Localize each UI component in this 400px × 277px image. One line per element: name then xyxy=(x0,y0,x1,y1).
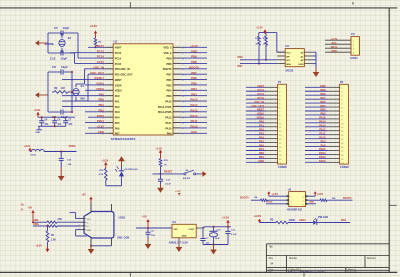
wire P1 row xyxy=(246,130,266,132)
capacitor C9 10pF xyxy=(52,111,61,113)
wire P2 row xyxy=(305,122,328,124)
svg-text:PD1-OSC_OUT: PD1-OSC_OUT xyxy=(115,74,133,77)
svg-text:PB3: PB3 xyxy=(167,95,172,98)
svg-text:+3.3V: +3.3V xyxy=(96,125,104,129)
pin P1 8 xyxy=(266,114,278,116)
pin P2 1 xyxy=(328,86,340,88)
pin U2 right 7 xyxy=(304,55,312,57)
ground port G1 (32k crystal) xyxy=(37,42,48,44)
wire P2 row xyxy=(305,161,328,163)
svg-text:GND: GND xyxy=(98,130,104,134)
pin P1 13 xyxy=(266,134,278,136)
pin 45 U1 right xyxy=(173,62,181,64)
pin 43 U1 right xyxy=(173,73,181,75)
svg-text:D-: D- xyxy=(87,223,89,225)
wire P1 row xyxy=(246,90,266,92)
pin P2 15 xyxy=(328,142,340,144)
svg-text:+3.3V: +3.3V xyxy=(175,191,181,193)
svg-text:VSSA: VSSA xyxy=(115,84,122,87)
svg-text:GND: GND xyxy=(331,50,337,53)
pin 13 U1 left xyxy=(106,111,114,113)
svg-text:USB1: USB1 xyxy=(119,217,126,220)
USB shield pin top left xyxy=(90,202,92,212)
svg-text:+3.3V: +3.3V xyxy=(222,215,230,219)
pin P2 8 xyxy=(328,114,340,116)
wire GND row xyxy=(76,229,81,231)
crystal X2 32.768kHz xyxy=(59,40,65,47)
wire reg output rail xyxy=(204,226,231,228)
svg-text:PB1: PB1 xyxy=(98,103,104,107)
svg-text:PA3: PA3 xyxy=(115,111,120,114)
wire L1 to VDDA xyxy=(44,151,76,153)
pin jumper left 3 xyxy=(286,199,288,201)
pin 10 U1 left xyxy=(106,95,114,97)
svg-text:10K: 10K xyxy=(332,198,336,200)
svg-text:PA5: PA5 xyxy=(115,122,120,125)
svg-text:PA0: PA0 xyxy=(259,120,264,124)
svg-text:Revision: Revision xyxy=(367,258,377,260)
wire +5V input rail xyxy=(136,227,172,229)
capacitor C7 223 xyxy=(202,227,204,239)
svg-text:LED1: LED1 xyxy=(299,218,306,222)
ground (reset) xyxy=(160,185,162,191)
svg-text:1M: 1M xyxy=(61,86,65,90)
pin P2 17 xyxy=(328,150,340,152)
USB shield pin bottom right xyxy=(111,238,113,246)
wire R7 to USB xyxy=(57,221,81,223)
svg-text:PA14-JTCK: PA14-JTCK xyxy=(158,106,172,109)
svg-text:PC15: PC15 xyxy=(97,60,105,64)
wire D+ row xyxy=(33,225,47,227)
svg-text:+3.3V: +3.3V xyxy=(156,147,163,150)
pin 3 U1 left xyxy=(106,57,114,59)
svg-text:VCC: VCC xyxy=(286,53,291,55)
svg-text:+3.3V: +3.3V xyxy=(254,214,262,218)
pin U3 out xyxy=(196,227,204,229)
USB shield pin bottom left xyxy=(90,238,92,246)
wire P1 row xyxy=(246,153,266,155)
svg-text:PB4: PB4 xyxy=(320,108,326,112)
wire U1 left row xyxy=(85,132,106,134)
wire U1 left row xyxy=(78,57,106,59)
resistor R3 100R xyxy=(276,221,288,224)
svg-text:USB-: USB- xyxy=(33,219,39,222)
connector P1 CON20 xyxy=(278,84,287,164)
pin 36 U1 right xyxy=(173,111,181,113)
svg-text:PC13: PC13 xyxy=(97,49,105,53)
resistor R5 10K xyxy=(320,199,327,201)
wire P1 row xyxy=(246,114,266,116)
svg-text:PA13: PA13 xyxy=(319,124,326,128)
svg-text:PA10: PA10 xyxy=(165,127,172,130)
svg-text:CON4: CON4 xyxy=(350,56,358,60)
wire P2 row xyxy=(305,146,328,148)
pin P3 row xyxy=(325,39,351,41)
EEPROM U2 24C02 xyxy=(285,49,304,67)
svg-text:PA11: PA11 xyxy=(165,122,172,125)
pin jumper right 2 xyxy=(305,195,307,197)
pin 38 U1 right xyxy=(173,100,181,102)
svg-text:PB5: PB5 xyxy=(167,84,172,87)
pin 46 U1 right xyxy=(173,57,181,59)
svg-text:GND: GND xyxy=(182,236,187,238)
svg-text:PC15: PC15 xyxy=(115,63,122,66)
wire P2 row xyxy=(305,134,328,136)
svg-text:PC15: PC15 xyxy=(258,96,265,100)
pin P1 12 xyxy=(266,130,278,132)
svg-text:PB7: PB7 xyxy=(167,74,172,77)
wire U1 left row xyxy=(62,105,106,107)
capacitor C13 10pF xyxy=(52,52,61,54)
wire P1 row xyxy=(246,138,266,140)
svg-text:Drawn By:: Drawn By: xyxy=(348,271,358,273)
wire U1 left row xyxy=(88,46,106,48)
svg-text:PC14: PC14 xyxy=(258,92,265,96)
wire U1 left row xyxy=(88,73,106,75)
svg-text:USB_CON: USB_CON xyxy=(117,237,129,240)
svg-text:10uF: 10uF xyxy=(215,238,221,240)
regulator U3 AMS1117-3.3V xyxy=(172,224,196,238)
pin P2 16 xyxy=(328,146,340,148)
svg-text:AMS1117-3.3V: AMS1117-3.3V xyxy=(169,240,189,244)
wire R2 to VBAT xyxy=(95,46,97,47)
svg-text:1K: 1K xyxy=(164,164,167,166)
wire U1 right row xyxy=(181,57,207,59)
svg-text:PA15: PA15 xyxy=(319,116,326,120)
resistor R9 1M xyxy=(54,91,68,94)
svg-text:STM32F103C8T6: STM32F103C8T6 xyxy=(111,137,136,141)
capacitor C10 10uF electrolytic xyxy=(213,227,215,231)
svg-text:PA2: PA2 xyxy=(259,127,264,131)
wire U1 left row xyxy=(85,111,106,113)
svg-text:PB15: PB15 xyxy=(319,147,326,151)
svg-text:VBAT: VBAT xyxy=(96,44,104,48)
svg-text:GND: GND xyxy=(320,84,326,88)
wire shield tie xyxy=(91,245,112,247)
svg-text:VBAT: VBAT xyxy=(257,84,264,88)
wire P2 row xyxy=(305,157,328,159)
svg-text:VOUT: VOUT xyxy=(188,229,195,231)
pin U2 left 3 xyxy=(277,59,285,61)
wire U1 right row xyxy=(181,46,207,48)
svg-text:NRST: NRST xyxy=(115,79,122,82)
wire P1 row xyxy=(246,122,266,124)
svg-text:GND: GND xyxy=(298,64,303,66)
svg-text:GND: GND xyxy=(35,132,40,134)
svg-text:PB10: PB10 xyxy=(97,114,105,118)
svg-text:PA11: PA11 xyxy=(319,131,326,135)
svg-text:PB3: PB3 xyxy=(191,92,197,96)
svg-text:GND: GND xyxy=(268,202,273,204)
svg-text:PA6: PA6 xyxy=(259,143,264,147)
ground (reg out) xyxy=(213,245,215,252)
svg-text:PA3: PA3 xyxy=(259,131,264,135)
svg-text:File:: File: xyxy=(269,271,273,273)
svg-text:PB4: PB4 xyxy=(167,90,172,93)
svg-text:X1: X1 xyxy=(81,84,85,88)
pin P1 5 xyxy=(266,102,278,104)
svg-text:0.1uF: 0.1uF xyxy=(165,183,171,185)
capacitor C5 10pF xyxy=(52,32,61,34)
svg-text:PA10: PA10 xyxy=(331,46,338,49)
svg-text:PB9: PB9 xyxy=(320,88,326,92)
pin P1 2 xyxy=(266,90,278,92)
svg-text:SCL: SCL xyxy=(286,60,291,62)
pin USB 2 xyxy=(81,221,86,223)
svg-text:BOOT0: BOOT0 xyxy=(189,65,199,69)
pin P2 3 xyxy=(328,94,340,96)
svg-text:+3.3V: +3.3V xyxy=(272,193,279,196)
svg-text:PB2: PB2 xyxy=(98,108,104,112)
svg-text:D2 PWR-LED: D2 PWR-LED xyxy=(124,169,138,171)
pin P2 13 xyxy=(328,134,340,136)
pin 8 U1 left xyxy=(106,84,114,86)
svg-text:VBAT: VBAT xyxy=(115,47,122,50)
wire I2C top rail xyxy=(259,32,277,34)
pin 7 U1 left xyxy=(106,79,114,81)
svg-text:VSSA: VSSA xyxy=(257,112,264,116)
svg-text:PA4: PA4 xyxy=(115,117,120,120)
svg-text:PB6: PB6 xyxy=(167,79,172,82)
pin 15 U1 left xyxy=(106,122,114,124)
wire U1 right row xyxy=(181,89,207,91)
pin P2 2 xyxy=(328,90,340,92)
wire P1 row xyxy=(246,94,266,96)
pin 2 U1 left xyxy=(106,52,114,54)
svg-text:BOOT1: BOOT1 xyxy=(343,197,352,200)
wire bank bottom rail xyxy=(38,125,66,127)
pin 14 U1 left xyxy=(106,116,114,118)
resistor R7 22R xyxy=(47,221,57,223)
svg-text:PB6: PB6 xyxy=(320,100,326,104)
svg-text:PC13: PC13 xyxy=(258,88,265,92)
pin U2 left 2 xyxy=(277,55,285,57)
pin jumper left 5 xyxy=(286,203,288,205)
svg-text:PB6: PB6 xyxy=(191,76,197,80)
svg-text:OSC_IN: OSC_IN xyxy=(93,65,104,69)
capacitor C7 104 xyxy=(65,117,67,121)
svg-text:PB7: PB7 xyxy=(320,96,326,100)
wire boot row1 right xyxy=(308,195,316,197)
capacitor C8 10pF xyxy=(52,71,61,73)
svg-text:GND: GND xyxy=(87,230,92,232)
svg-text:PB7: PB7 xyxy=(238,64,244,68)
ground GND (bank) xyxy=(38,126,40,129)
svg-text:+5V: +5V xyxy=(28,207,33,210)
wire U1 right row xyxy=(181,111,207,113)
svg-text:PD0-OSC_IN: PD0-OSC_IN xyxy=(115,68,130,71)
svg-text:PB8: PB8 xyxy=(320,92,326,96)
svg-text:HEADER 3X2: HEADER 3X2 xyxy=(287,208,303,211)
wire U1 right row xyxy=(181,100,207,102)
wire P1 row xyxy=(246,98,266,100)
svg-text:VDDA: VDDA xyxy=(69,145,76,148)
wire pullups to SCL/SDA xyxy=(258,46,260,64)
ground (I2C) xyxy=(315,68,317,74)
svg-text:+3.3V: +3.3V xyxy=(190,44,198,48)
svg-text:USB+: USB+ xyxy=(33,223,40,226)
switch S2 xyxy=(184,173,186,175)
svg-text:PA10: PA10 xyxy=(319,135,326,139)
wire P1 row xyxy=(246,126,266,128)
svg-text:10pF: 10pF xyxy=(61,57,68,61)
pin 32 U1 right xyxy=(173,132,181,134)
pin P2 18 xyxy=(328,153,340,155)
capacitor C6 104 xyxy=(54,117,56,121)
svg-text:4: 4 xyxy=(78,228,79,230)
svg-text:PB12: PB12 xyxy=(319,159,326,163)
ground (VDDA filter) xyxy=(60,167,62,178)
capacitor C11 0.1uF xyxy=(227,227,229,231)
pin P2 5 xyxy=(328,102,340,104)
wire U1 left row xyxy=(85,68,106,70)
wire P1 row xyxy=(246,106,266,108)
capacitor C14 104 xyxy=(60,151,62,153)
ground up (PWR LED) xyxy=(121,159,123,166)
svg-text:OSC_OUT: OSC_OUT xyxy=(251,104,264,108)
resistor R2 0R xyxy=(94,38,97,46)
pin P1 17 xyxy=(266,150,278,152)
pin P1 15 xyxy=(266,142,278,144)
wire U1 right row xyxy=(181,122,207,124)
svg-text:WP: WP xyxy=(286,56,290,58)
pin 42 U1 right xyxy=(173,79,181,81)
wire bank top rail xyxy=(38,116,75,118)
svg-text:PA7: PA7 xyxy=(115,133,120,136)
svg-text:D+: D+ xyxy=(21,203,25,206)
wire P1 row xyxy=(246,161,266,163)
resistor R8 22R xyxy=(47,225,57,227)
pin P1 20 xyxy=(266,161,278,163)
svg-text:PB5: PB5 xyxy=(191,82,197,86)
svg-text:R3: R3 xyxy=(270,218,274,222)
pin 35 U1 right xyxy=(173,116,181,118)
wire boot row3 left xyxy=(266,203,286,205)
svg-text:PC14: PC14 xyxy=(115,57,122,60)
pin P1 1 xyxy=(266,86,278,88)
wire U1 right row xyxy=(181,116,207,118)
pin P1 14 xyxy=(266,138,278,140)
pin P1 18 xyxy=(266,153,278,155)
svg-text:P2: P2 xyxy=(340,80,344,84)
pin 44 U1 right xyxy=(173,68,181,70)
pin P1 10 xyxy=(266,122,278,124)
wire P2 row xyxy=(305,150,328,152)
wire P2 row xyxy=(305,110,328,112)
pin USB 4 xyxy=(81,229,86,231)
wire P2 row xyxy=(305,126,328,128)
pin U3 gnd xyxy=(178,238,180,242)
wire cap bottom rail xyxy=(203,244,228,246)
svg-text:24C02: 24C02 xyxy=(285,68,293,72)
wire +3.3V to VCC pin xyxy=(276,33,278,53)
wire R3 to LED xyxy=(288,222,312,224)
pin P1 6 xyxy=(266,106,278,108)
svg-text:32.768k: 32.768k xyxy=(45,42,55,46)
svg-text:VIN: VIN xyxy=(174,229,178,231)
pin jumper left 1 xyxy=(286,195,288,197)
wire S2 to port xyxy=(196,173,201,175)
wire D- row xyxy=(33,221,47,223)
wire R5 to BOOT1 xyxy=(327,199,353,201)
wire 8M crystal left rail xyxy=(47,72,49,112)
wire boot row3 right xyxy=(308,203,316,205)
MCU U1 STM32F103C8T6 xyxy=(113,44,173,135)
wire P2 row xyxy=(305,142,328,144)
pin 11 U1 left xyxy=(106,100,114,102)
pin U2 left 1 xyxy=(277,51,285,53)
svg-text:VDDA: VDDA xyxy=(257,116,264,120)
pin P1 3 xyxy=(266,94,278,96)
svg-text:VSSA: VSSA xyxy=(96,82,104,86)
svg-text:PA4: PA4 xyxy=(259,135,264,139)
wire X2 to PC14/PC15 xyxy=(61,33,63,38)
svg-text:+3.3V: +3.3V xyxy=(331,38,338,41)
wire P2 row xyxy=(305,102,328,104)
svg-text:PA0: PA0 xyxy=(99,92,105,96)
wire U1 right row xyxy=(181,68,207,70)
LED D2 PWR xyxy=(121,166,123,171)
svg-text:PA7: PA7 xyxy=(259,147,264,151)
wire SCL xyxy=(240,59,277,61)
pin 34 U1 right xyxy=(173,122,181,124)
svg-text:PA13-JTMS: PA13-JTMS xyxy=(158,111,172,114)
svg-text:PB8: PB8 xyxy=(191,60,197,64)
pin 40 U1 right xyxy=(173,89,181,91)
LED D2 xyxy=(312,222,313,224)
svg-text:PA8: PA8 xyxy=(341,218,346,222)
capacitor C12 0.1uF xyxy=(158,178,163,180)
svg-text:PA10: PA10 xyxy=(191,125,198,129)
wire U1 right row xyxy=(181,79,207,81)
svg-text:PA8: PA8 xyxy=(321,143,326,147)
wire R8 to USB xyxy=(57,225,81,227)
svg-text:U2: U2 xyxy=(285,44,289,48)
ground right port (reset) xyxy=(201,173,205,175)
svg-text:PB1: PB1 xyxy=(259,155,265,159)
pin U2 right 8 xyxy=(304,51,312,53)
svg-text:PA15: PA15 xyxy=(191,98,198,102)
svg-text:P1: P1 xyxy=(278,80,282,84)
wire U2 right tie xyxy=(312,51,316,53)
svg-text:PB5: PB5 xyxy=(320,104,326,108)
pin P2 14 xyxy=(328,138,340,140)
wire U1 right row xyxy=(181,105,207,107)
svg-text:PA15: PA15 xyxy=(165,100,172,103)
jumper U4 HEADER 3X2 xyxy=(289,192,306,207)
resistor R10 4.7K xyxy=(105,168,108,180)
svg-text:PA9: PA9 xyxy=(191,130,197,134)
wire 32k crystal left rail xyxy=(47,33,49,53)
svg-text:Size: Size xyxy=(269,258,274,260)
title block xyxy=(266,243,389,245)
svg-text:C5: C5 xyxy=(54,26,58,30)
svg-text:GND: GND xyxy=(191,49,197,53)
wire LED to PA8 xyxy=(323,222,350,224)
wire P2 row xyxy=(305,114,328,116)
ground port G2 (8M crystal) xyxy=(37,94,48,96)
pin U2 right 6 xyxy=(304,59,312,61)
svg-text:2: 2 xyxy=(78,221,79,223)
pin P3 row xyxy=(325,47,351,49)
svg-text:PB13: PB13 xyxy=(319,155,326,159)
capacitor C6 104 xyxy=(147,228,149,232)
wire P2 row xyxy=(305,130,328,132)
svg-text:PA0: PA0 xyxy=(115,95,120,98)
wire P1 row xyxy=(246,134,266,136)
wire U1 right row xyxy=(181,127,207,129)
resistor R11 1K xyxy=(159,159,162,167)
